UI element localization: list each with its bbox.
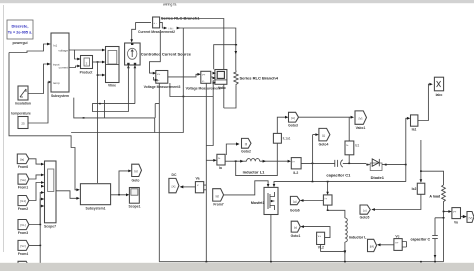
- svg-text:[IL1]: [IL1]: [20, 199, 26, 203]
- svg-text:v+: v+: [395, 241, 399, 245]
- svg-text:Series RLC Branch4: Series RLC Branch4: [240, 76, 279, 81]
- svg-text:[M]: [M]: [370, 244, 374, 248]
- svg-text:Vc: Vc: [395, 234, 399, 238]
- top wire to left column: [161, 19, 224, 109]
- VL2 bottom wire: [321, 245, 345, 252]
- svg-text:Scope1: Scope1: [128, 205, 140, 209]
- svg-text:powergui: powergui: [12, 41, 27, 45]
- svg-text:[Va]: [Va]: [20, 178, 25, 182]
- voltage measurement1 block: [186, 71, 222, 90]
- wire subsystem out to scope in1: [75, 49, 103, 51]
- Vabc1 goto tag: [355, 111, 367, 130]
- svg-text:[g]: [g]: [293, 199, 297, 203]
- svg-text:Ia: Ia: [219, 166, 222, 170]
- svg-text:i+: i+: [218, 156, 221, 160]
- wire to scope in3 tap: [98, 74, 103, 76]
- svg-text:Vabc1: Vabc1: [356, 126, 366, 130]
- Vc measurement block: [394, 234, 407, 250]
- vertical inductor L coil: [344, 218, 348, 262]
- mux block: [44, 161, 56, 229]
- svg-text:From4: From4: [18, 252, 28, 256]
- scope1 block: [128, 188, 140, 209]
- IL3 left out to tag: [303, 200, 324, 202]
- svg-text:IL2: IL2: [293, 171, 298, 175]
- Vabc scope block: [213, 70, 227, 91]
- svg-text:From1: From1: [18, 186, 28, 190]
- svg-text:i+: i+: [346, 143, 349, 147]
- va measurement block: [195, 177, 206, 193]
- Vo out to goto tag: [461, 216, 464, 218]
- wire G3 to Vabc1 tag: [299, 116, 352, 118]
- svg-text:Voltage Measurement: Voltage Measurement: [186, 86, 222, 90]
- subsystem1 out wire: [111, 171, 130, 195]
- goto tag inductor L label: [349, 235, 377, 251]
- IL1 measurement block: [273, 133, 290, 143]
- goto tag Vo1: [467, 212, 474, 223]
- RLC branch4 bottom wire: [224, 86, 236, 108]
- wire product out to scope in2: [93, 61, 103, 63]
- trunk x206 vertical: [205, 83, 207, 262]
- svg-text:[I]: [I]: [245, 142, 248, 146]
- Ia1 branch up to Gate1 tag: [226, 144, 236, 155]
- inductor L1: [236, 159, 289, 175]
- svg-text:i+: i+: [325, 197, 328, 201]
- Ic2 measurement block: [412, 183, 425, 194]
- svg-text:Discrete,: Discrete,: [12, 24, 29, 29]
- svg-text:voltage: voltage: [58, 49, 68, 53]
- voltage measurement3 block: [144, 71, 181, 90]
- wire subsystem voltage out to product: [69, 50, 78, 59]
- svg-text:From3: From3: [18, 231, 28, 235]
- from tag F3: [18, 196, 29, 212]
- svg-text:Goto1: Goto1: [291, 234, 301, 238]
- svg-text:i A i: i A i: [169, 26, 174, 30]
- CM2 output wire jog: [160, 22, 165, 28]
- IL3 block: [323, 195, 332, 205]
- from tag F5: [18, 240, 29, 256]
- goto tag gate: [132, 164, 142, 182]
- svg-text:temp: temp: [53, 81, 60, 85]
- scope Vline block: [106, 47, 120, 88]
- wire from RLC column to Vabc column: [214, 45, 236, 70]
- wire insolation to subsystem: [28, 64, 48, 94]
- svg-text:[V]: [V]: [359, 116, 363, 120]
- vertical to Ic2: [420, 140, 422, 182]
- svg-text:Goto2: Goto2: [241, 150, 251, 154]
- Gate1 goto tag: [241, 138, 251, 153]
- wire scope column down: [97, 62, 99, 183]
- svg-text:Controlled Current Source: Controlled Current Source: [141, 52, 192, 57]
- svg-text:v+: v+: [202, 73, 206, 77]
- IL1 up wire to gate tag row: [277, 117, 286, 133]
- capacitor C vertical: [411, 217, 445, 262]
- left canvas border line: [3, 5, 5, 252]
- second top wire to RLC column: [177, 28, 236, 71]
- svg-text:Scope7: Scope7: [44, 225, 56, 229]
- svg-text:i+: i+: [293, 159, 296, 163]
- top window band: [0, 0, 474, 3]
- wires from tags to mux: [29, 159, 42, 164]
- svg-text:DC: DC: [172, 173, 177, 177]
- svg-text:Subsystem: Subsystem: [51, 94, 69, 98]
- DC goto tag: [169, 173, 179, 193]
- junction on RLC column: [235, 44, 237, 45]
- svg-text:[L]: [L]: [322, 134, 326, 138]
- gate goto tag G3: [288, 112, 298, 127]
- svg-text:capacitor C: capacitor C: [411, 237, 431, 241]
- Ia1 measurement block: [217, 154, 225, 170]
- svg-text:In1: In1: [53, 44, 58, 48]
- wire temperature to subsystem temp: [28, 82, 50, 123]
- svg-text:Product: Product: [80, 71, 94, 75]
- svg-text:[VL]: [VL]: [20, 223, 26, 227]
- svg-text:v+: v+: [453, 210, 457, 214]
- svg-text:Ic2: Ic2: [412, 187, 417, 191]
- svg-text:Diode1: Diode1: [371, 175, 385, 180]
- svg-text:[o]: [o]: [363, 208, 367, 212]
- svg-text:temperature: temperature: [11, 112, 31, 116]
- svg-text:[Vc]: [Vc]: [20, 244, 25, 248]
- VM1 output to Vabc scope: [211, 76, 213, 78]
- svg-text:From2: From2: [18, 207, 28, 211]
- wire A load top: [421, 171, 444, 185]
- svg-text:wiring fa: wiring fa: [163, 2, 176, 6]
- svg-text:From6: From6: [18, 165, 28, 169]
- svg-text:[V]: [V]: [469, 216, 473, 220]
- svg-text:Ia1: Ia1: [412, 127, 417, 131]
- wire Vc out to tag: [380, 244, 394, 246]
- svg-text:Goto5: Goto5: [360, 215, 370, 219]
- svg-text:Ic1: Ic1: [355, 144, 359, 148]
- svg-text:IL1a1: IL1a1: [283, 137, 291, 141]
- svg-text:+ -: + -: [153, 21, 157, 25]
- diode D1: [366, 159, 406, 180]
- svg-text:Vabc: Vabc: [218, 86, 226, 90]
- svg-text:Va: Va: [196, 177, 200, 181]
- Iabc goto block: [434, 77, 443, 97]
- Ic2 bottom to tag wire: [374, 194, 421, 209]
- long horizontal wire A to mosfet: [224, 181, 269, 195]
- trunk x183 vertical with return: [71, 28, 183, 133]
- wire into subsystem In1: [9, 44, 48, 53]
- from tag F4: [18, 220, 29, 236]
- svg-text:25: 25: [21, 122, 25, 126]
- riser wire from lower tags: [29, 193, 42, 225]
- from tag F1: [17, 154, 29, 169]
- wire subsystem current out to product: [69, 66, 78, 68]
- product block: [80, 56, 94, 75]
- CCS bottom port wires and loop: [93, 65, 135, 112]
- svg-text:Series RLC Branch1: Series RLC Branch1: [161, 15, 200, 20]
- vertical at x406: [406, 118, 408, 181]
- svg-text:inductor L: inductor L: [349, 235, 367, 239]
- VM3 output wire: [168, 74, 198, 77]
- svg-text:Subsystem1: Subsystem1: [86, 206, 106, 210]
- mux out to subsystem1 in2: [56, 191, 77, 199]
- from tag F7: [213, 189, 224, 207]
- svg-text:Voltage Measurement3: Voltage Measurement3: [144, 85, 181, 89]
- A load resistor: [429, 185, 445, 204]
- IL2 out row with capacitor C1: [301, 162, 366, 164]
- trunk x160 vertical: [158, 83, 160, 262]
- svg-text:inductor L1: inductor L1: [243, 169, 266, 174]
- svg-text:Goto: Goto: [132, 179, 140, 183]
- current measurement CM2 block: [138, 17, 175, 34]
- svg-text:Mosfet1: Mosfet1: [251, 201, 265, 205]
- svg-text:A load: A load: [429, 195, 440, 199]
- IL3 top input: [327, 182, 329, 193]
- svg-text:Iabc: Iabc: [436, 93, 443, 97]
- subsystem1 block: [80, 184, 110, 211]
- svg-text:[v]: [v]: [294, 225, 297, 229]
- mosfet block Q1: [251, 187, 278, 214]
- subsystem block: [51, 33, 69, 98]
- IL2 measurement block: [291, 158, 301, 175]
- wire CCS top from CM2 loop: [132, 23, 151, 40]
- svg-text:[g]: [g]: [134, 169, 138, 173]
- wire into Ia1: [206, 159, 214, 161]
- bottom window band: [0, 263, 474, 271]
- crossing wire y96: [170, 80, 213, 146]
- svg-text:current: current: [59, 66, 69, 70]
- wire into Vo: [444, 211, 450, 213]
- svg-text:From7: From7: [213, 203, 223, 207]
- left return wire staircase: [9, 53, 77, 190]
- Ia1 out to inductor row: [225, 160, 236, 162]
- Vo measurement block: [452, 208, 461, 225]
- insolation source block: [15, 86, 31, 106]
- wire va to DC tag: [183, 186, 196, 188]
- powergui block: [7, 20, 33, 45]
- capacitor C1: [326, 160, 351, 178]
- svg-text:Goto4: Goto4: [319, 142, 329, 146]
- junction wire down from row: [312, 163, 314, 181]
- svg-text:Goto6: Goto6: [290, 208, 300, 212]
- svg-text:v+: v+: [318, 234, 322, 238]
- wire Ia to Iabc: [418, 84, 430, 120]
- goto tag g2: [290, 196, 300, 212]
- A load bottom wire: [443, 204, 445, 262]
- svg-text:[Ia]: [Ia]: [20, 158, 24, 162]
- controlled current source block U1: [125, 43, 192, 68]
- from tag F2: [18, 174, 29, 190]
- svg-text:Ts = 2e-005 s.: Ts = 2e-005 s.: [8, 31, 33, 35]
- svg-text:[A]: [A]: [291, 116, 295, 120]
- wire into VM3 v-: [154, 77, 159, 80]
- wire into VM3 v+: [150, 30, 161, 73]
- Ia current measurement block right: [411, 115, 418, 131]
- svg-text:v-: v-: [157, 79, 160, 83]
- from tag F6: [18, 261, 29, 271]
- svg-text:[X]: [X]: [172, 184, 176, 188]
- long horizontal wire B from mosfet to right: [274, 182, 406, 185]
- svg-text:Goto3: Goto3: [288, 123, 298, 127]
- svg-text:v-: v-: [202, 79, 205, 83]
- IL3 bottom to vertical inductor: [328, 205, 345, 218]
- svg-text:Vo: Vo: [454, 221, 458, 225]
- svg-text:insolation: insolation: [15, 102, 31, 106]
- svg-text:Vline: Vline: [108, 83, 116, 87]
- VL2 out to tag: [303, 227, 330, 238]
- goto tag Io: [360, 205, 371, 219]
- svg-text:capacitor C1: capacitor C1: [326, 172, 351, 177]
- mosfet bottom wire: [270, 215, 272, 262]
- series RLC branch4 resistor: [234, 71, 279, 86]
- Ic1 measurement block: [345, 141, 359, 155]
- bottom bus wire: [159, 261, 443, 263]
- IL2 goto tag: [319, 128, 330, 146]
- svg-text:v+: v+: [157, 72, 161, 76]
- Ic1 wires: [348, 117, 350, 162]
- inductor L1 return loop: [236, 143, 278, 175]
- goto tag VL: [291, 221, 301, 238]
- VL2 measurement block: [317, 232, 325, 250]
- temperature constant block: [11, 112, 31, 129]
- svg-text:[g]: [g]: [216, 194, 220, 198]
